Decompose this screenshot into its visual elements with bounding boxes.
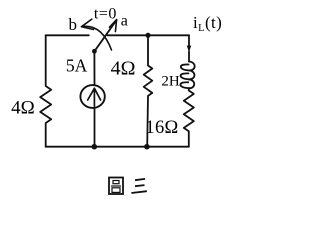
- svg-text:16Ω: 16Ω: [145, 118, 178, 138]
- svg-text:2H: 2H: [161, 73, 180, 89]
- svg-text:a: a: [121, 13, 128, 30]
- svg-text:4Ω: 4Ω: [111, 58, 136, 80]
- svg-text:5A: 5A: [66, 56, 88, 76]
- svg-text:t=0: t=0: [94, 5, 117, 22]
- svg-text:4Ω: 4Ω: [11, 98, 35, 119]
- svg-text:iL(t): iL(t): [193, 13, 222, 34]
- svg-text:b: b: [68, 15, 77, 34]
